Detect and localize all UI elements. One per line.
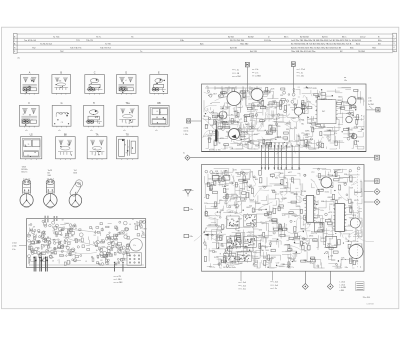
svg-text:L0xR: L0xR <box>248 126 253 128</box>
svg-text:C7: C7 <box>58 260 60 262</box>
svg-text:C29: C29 <box>249 172 252 174</box>
svg-text:72: 72 <box>125 123 127 125</box>
svg-text:T2xC: T2xC <box>281 199 286 201</box>
svg-text:3K4: 3K4 <box>328 141 331 143</box>
svg-text:L 23x: L 23x <box>300 76 304 78</box>
svg-text:K268: K268 <box>231 199 235 201</box>
svg-text:K82: K82 <box>255 145 258 147</box>
svg-text:50x2: 50x2 <box>237 174 241 176</box>
svg-text:35: 35 <box>28 144 30 146</box>
svg-text:7Bx C2x: 7Bx C2x <box>306 88 313 90</box>
svg-text:07L: 07L <box>315 208 318 210</box>
svg-text:D15: D15 <box>204 203 207 205</box>
svg-text:x2x: x2x <box>25 130 28 132</box>
svg-text:xK9: xK9 <box>235 213 238 215</box>
svg-text:x2x: x2x <box>123 130 126 132</box>
svg-text:T2 7B: T2 7B <box>105 44 111 46</box>
svg-text:R7x: R7x <box>334 133 337 135</box>
svg-text:xK96: xK96 <box>269 220 273 222</box>
svg-text:935: 935 <box>286 129 289 131</box>
svg-text:4: 4 <box>393 47 394 49</box>
svg-text:B2 2x 3x4 3x3x: B2 2x 3x4 3x3x <box>223 267 235 269</box>
svg-text:79RC: 79RC <box>357 97 362 99</box>
svg-text:C7x: C7x <box>133 245 136 247</box>
svg-text:D8x3: D8x3 <box>231 122 235 124</box>
svg-text:163D: 163D <box>327 130 332 132</box>
svg-text:9RL: 9RL <box>294 194 297 196</box>
svg-text:7214: 7214 <box>276 118 280 120</box>
svg-text:0xCx: 0xCx <box>277 105 281 107</box>
svg-text:3RT2: 3RT2 <box>252 106 256 108</box>
svg-text:x2: x2 <box>206 86 208 88</box>
svg-text:L 3x 3B4: L 3x 3B4 <box>340 287 347 289</box>
svg-text:80: 80 <box>75 228 77 230</box>
svg-text:LKK6: LKK6 <box>302 191 306 193</box>
svg-text:7Bw 3B2: 7Bw 3B2 <box>240 44 249 46</box>
svg-text:L 23B4: L 23B4 <box>255 76 261 78</box>
svg-text:L 3x: L 3x <box>368 98 371 100</box>
svg-text:x2x: x2x <box>58 130 61 132</box>
svg-text:DCC: DCC <box>306 133 311 135</box>
svg-text:LL: LL <box>134 224 136 226</box>
svg-text:RB9R: RB9R <box>337 100 342 102</box>
svg-text:D28: D28 <box>271 88 274 90</box>
svg-text:D39: D39 <box>257 203 260 205</box>
svg-text:991: 991 <box>285 228 288 230</box>
svg-text:547: 547 <box>240 263 243 265</box>
svg-text:2: 2 <box>393 40 394 42</box>
svg-text:xx 2B3: xx 2B3 <box>117 282 123 284</box>
svg-text:C2x04: C2x04 <box>349 261 354 263</box>
svg-text:xB9: xB9 <box>338 170 341 172</box>
svg-text:Lw3 7Bx 7B4 3Bw B3x 2B 34B 2Bx: Lw3 7Bx 7B4 3Bw B3x 2B 34B 2Bx B34 7w3 B… <box>291 40 352 42</box>
svg-text:0R52: 0R52 <box>267 218 271 220</box>
svg-text:TC1R: TC1R <box>354 127 359 129</box>
svg-text:4L42: 4L42 <box>254 134 258 136</box>
svg-text:49: 49 <box>159 112 161 114</box>
svg-text:5Tx: 5Tx <box>318 227 321 229</box>
svg-text:L 3x: L 3x <box>274 288 277 290</box>
svg-text:383: 383 <box>267 105 270 107</box>
svg-text:Tb 7c: Tb 7c <box>96 36 101 38</box>
svg-text:T2b T3b T9c: T2b T3b T9c <box>70 47 82 49</box>
svg-text:09DR: 09DR <box>328 197 333 199</box>
svg-text:9C77: 9C77 <box>243 116 247 118</box>
svg-text:T4a: T4a <box>125 102 130 105</box>
svg-text:728: 728 <box>330 255 333 257</box>
svg-text:xx4: xx4 <box>288 105 291 107</box>
svg-text:3x 2B4: 3x 2B4 <box>368 104 374 106</box>
svg-text:98: 98 <box>66 246 68 248</box>
svg-text:228: 228 <box>263 257 266 259</box>
svg-text:CC9: CC9 <box>284 140 288 142</box>
svg-text:51: 51 <box>97 258 99 260</box>
svg-text:663: 663 <box>321 201 324 203</box>
svg-text:L 34x: L 34x <box>12 246 17 248</box>
svg-text:320: 320 <box>209 251 212 253</box>
svg-text:B2 B4: B2 B4 <box>228 36 235 38</box>
svg-text:5: 5 <box>393 51 394 53</box>
svg-text:wx: wx <box>344 77 346 79</box>
svg-text:14: 14 <box>94 90 96 92</box>
svg-text:8R5: 8R5 <box>304 250 307 252</box>
svg-text:L5: L5 <box>85 261 87 263</box>
svg-text:5105: 5105 <box>287 146 291 148</box>
svg-text:71: 71 <box>63 229 65 231</box>
svg-text:08: 08 <box>62 220 64 222</box>
svg-text:03R1: 03R1 <box>208 138 212 140</box>
svg-text:96: 96 <box>39 232 41 234</box>
svg-text:L x 3x4: L x 3x4 <box>340 282 345 284</box>
svg-text:B5C4: B5C4 <box>311 231 316 233</box>
svg-text:B4 B2: B4 B2 <box>248 36 255 38</box>
svg-text:706: 706 <box>249 206 252 208</box>
svg-text:5L59: 5L59 <box>208 135 212 137</box>
svg-text:C6: C6 <box>94 149 96 151</box>
svg-text:D8x: D8x <box>345 267 348 269</box>
svg-text:78BC: 78BC <box>327 244 332 246</box>
svg-text:B2 B4 B2: B2 B4 B2 <box>300 36 310 38</box>
svg-text:L 3x2: L 3x2 <box>242 285 246 287</box>
svg-text:3B8D: 3B8D <box>273 102 278 104</box>
svg-text:x9R4: x9R4 <box>224 185 228 187</box>
svg-text:xx: xx <box>43 245 45 247</box>
svg-text:637D: 637D <box>313 88 318 90</box>
svg-text:L 3xx: L 3xx <box>242 289 246 291</box>
svg-text:06D1: 06D1 <box>288 258 292 260</box>
svg-text:B2w34 7B 3Bx B23 7Bw 34 B2x 3B: B2w34 7B 3Bx B23 7Bw 34 B2x 3Bw B23 2B4 … <box>291 47 342 49</box>
svg-text:KBCC: KBCC <box>209 267 215 269</box>
svg-text:L 3B4: L 3B4 <box>117 279 122 281</box>
svg-text:R31: R31 <box>319 142 322 144</box>
svg-text:T2: T2 <box>94 155 96 157</box>
svg-text:x1: x1 <box>125 80 127 82</box>
svg-text:9T: 9T <box>126 152 128 154</box>
svg-text:6T: 6T <box>71 236 73 238</box>
svg-text:BD6x: BD6x <box>338 97 342 99</box>
svg-text:T2b 7B: T2b 7B <box>86 40 93 42</box>
svg-text:Rx57: Rx57 <box>237 145 241 147</box>
svg-text:956: 956 <box>344 174 347 176</box>
svg-text:1: 1 <box>393 36 394 38</box>
svg-text:17: 17 <box>95 88 97 90</box>
svg-text:RCR: RCR <box>209 189 214 191</box>
svg-text:Tx07: Tx07 <box>294 216 298 218</box>
svg-text:C: C <box>94 71 96 74</box>
svg-text:LKx: LKx <box>321 210 324 212</box>
svg-text:63: 63 <box>45 245 47 247</box>
svg-text:93C6: 93C6 <box>229 212 233 214</box>
svg-text:53C3: 53C3 <box>208 179 212 181</box>
svg-text:D4R0: D4R0 <box>348 130 353 132</box>
svg-text:7R53: 7R53 <box>352 215 356 217</box>
svg-text:T9RB: T9RB <box>291 118 296 120</box>
svg-text:9222: 9222 <box>206 216 210 218</box>
svg-text:L 3x4: L 3x4 <box>242 282 246 284</box>
svg-text:888: 888 <box>286 123 289 125</box>
svg-text:3T: 3T <box>136 221 138 223</box>
svg-text:xD97: xD97 <box>275 137 279 139</box>
svg-text:D1: D1 <box>94 235 96 237</box>
svg-text:G: G <box>61 102 63 105</box>
svg-text:168: 168 <box>208 224 211 226</box>
svg-text:67: 67 <box>31 120 33 122</box>
svg-text:C2375B: C2375B <box>366 304 374 306</box>
svg-text:Tw M 2b 3x4: Tw M 2b 3x4 <box>40 44 53 46</box>
svg-text:H: H <box>93 102 95 105</box>
svg-text:x2x: x2x <box>90 130 93 132</box>
svg-text:3LDD: 3LDD <box>214 257 219 259</box>
svg-text:3B 7B 7B4 7B4: 3B 7B 7B4 7B4 <box>230 40 245 42</box>
svg-text:L 3x4: L 3x4 <box>274 285 278 287</box>
svg-text:D: D <box>125 71 127 74</box>
svg-text:67: 67 <box>46 241 48 243</box>
svg-text:T2xL: T2xL <box>220 107 224 109</box>
svg-text:5x: 5x <box>57 234 59 236</box>
svg-text:L 3x: L 3x <box>300 72 303 74</box>
svg-text:D9: D9 <box>33 227 35 229</box>
svg-text:BC347B: BC347B <box>241 132 248 134</box>
svg-text:D3 D3x: D3 D3x <box>264 40 272 42</box>
svg-text:CRT7: CRT7 <box>288 141 293 143</box>
svg-text:K011: K011 <box>353 108 357 110</box>
svg-text:954: 954 <box>245 173 248 175</box>
svg-text:21C8: 21C8 <box>250 199 254 201</box>
svg-text:546: 546 <box>249 185 252 187</box>
svg-text:2B25: 2B25 <box>307 262 311 264</box>
svg-text:D62: D62 <box>243 179 246 181</box>
svg-text:L 3x: L 3x <box>12 249 16 251</box>
svg-text:D31C: D31C <box>216 236 221 238</box>
svg-text:K35: K35 <box>275 178 278 180</box>
svg-text:TR9: TR9 <box>237 230 240 232</box>
svg-text:T0: T0 <box>41 248 43 250</box>
svg-text:828: 828 <box>350 203 353 205</box>
svg-text:C750: C750 <box>272 192 276 194</box>
svg-text:7L: 7L <box>38 254 40 256</box>
svg-text:D6x: D6x <box>272 116 275 118</box>
svg-text:8R00: 8R00 <box>237 255 241 257</box>
svg-text:x6C7: x6C7 <box>288 172 292 174</box>
svg-text:x69: x69 <box>346 113 349 115</box>
svg-text:101: 101 <box>214 252 217 254</box>
svg-text:KK: KK <box>27 155 29 157</box>
svg-text:L81C: L81C <box>327 175 332 177</box>
svg-text:BC34x: BC34x <box>241 136 246 138</box>
svg-text:D3x: D3x <box>190 209 193 211</box>
svg-text:D4 x2: D4 x2 <box>360 36 366 38</box>
svg-text:L67: L67 <box>204 245 207 247</box>
svg-text:D1: D1 <box>33 238 35 240</box>
svg-text:K2: K2 <box>60 141 62 143</box>
svg-text:L 30x: L 30x <box>184 134 188 136</box>
svg-text:L 3x: L 3x <box>236 70 239 72</box>
svg-text:D311: D311 <box>303 239 307 241</box>
svg-text:BK6: BK6 <box>280 173 283 175</box>
svg-text:x 3B4: x 3B4 <box>340 290 344 292</box>
svg-text:80R4: 80R4 <box>211 184 215 186</box>
svg-text:4KL: 4KL <box>318 147 321 149</box>
svg-text:RT65: RT65 <box>232 245 236 247</box>
svg-text:T5R6: T5R6 <box>249 113 253 115</box>
svg-text:30: 30 <box>139 226 141 228</box>
svg-text:1R2: 1R2 <box>329 204 332 206</box>
svg-text:L3x: L3x <box>344 80 347 82</box>
svg-text:96L1: 96L1 <box>313 240 317 242</box>
svg-text:D48: D48 <box>248 235 251 237</box>
svg-text:L x 3x4: L x 3x4 <box>340 284 345 286</box>
svg-text:L3: L3 <box>121 86 123 88</box>
svg-text:6003: 6003 <box>272 223 276 225</box>
svg-text:K06: K06 <box>266 250 269 252</box>
svg-text:4KLC: 4KLC <box>339 178 344 180</box>
svg-text:DB: DB <box>29 86 31 88</box>
svg-text:3B7: 3B7 <box>312 128 315 130</box>
svg-text:CK: CK <box>30 79 32 81</box>
svg-text:L2L: L2L <box>223 170 226 172</box>
svg-text:0D7: 0D7 <box>248 103 251 105</box>
svg-text:7Bw 34B 2Bx B3 2xB 7Bw: 7Bw 34B 2Bx B3 2xB 7Bw <box>291 51 316 53</box>
svg-text:Twr M 2b G4: Twr M 2b G4 <box>24 39 37 42</box>
svg-text:523: 523 <box>355 192 358 194</box>
svg-text:B2x 3x: B2x 3x <box>306 146 312 148</box>
svg-text:DC: DC <box>322 111 326 113</box>
svg-text:B23: B23 <box>74 172 77 174</box>
svg-text:RC8: RC8 <box>259 210 263 212</box>
svg-text:R8LR: R8LR <box>250 245 255 247</box>
svg-text:Ta T1b: Ta T1b <box>53 36 60 38</box>
svg-text:7T2: 7T2 <box>311 172 314 174</box>
svg-text:191C: 191C <box>261 245 266 247</box>
svg-text:9xK1: 9xK1 <box>307 102 311 104</box>
svg-text:KD15: KD15 <box>354 200 359 202</box>
svg-text:K59: K59 <box>350 188 353 190</box>
svg-text:TA: TA <box>96 134 99 137</box>
svg-text:CB: CB <box>61 122 63 124</box>
svg-text:4R74: 4R74 <box>309 235 313 237</box>
svg-text:93x: 93x <box>301 124 304 126</box>
svg-text:T97: T97 <box>266 133 269 135</box>
svg-text:DB: DB <box>157 102 161 105</box>
svg-text:2xKD: 2xKD <box>300 140 305 142</box>
svg-text:T4b 7B 7k3: T4b 7B 7k3 <box>100 47 111 49</box>
svg-text:610: 610 <box>242 189 245 191</box>
svg-text:xK8: xK8 <box>222 94 225 96</box>
svg-text:B01: B01 <box>255 179 258 181</box>
svg-text:TB1: TB1 <box>301 119 304 121</box>
svg-text:Bx2 3B: Bx2 3B <box>250 51 257 53</box>
svg-text:w 234: w 234 <box>184 128 189 130</box>
svg-text:68: 68 <box>154 84 156 86</box>
svg-text:LB: LB <box>128 123 130 125</box>
svg-text:93: 93 <box>60 81 62 83</box>
svg-text:R65: R65 <box>258 236 261 238</box>
svg-text:3x: 3x <box>183 153 185 155</box>
svg-text:T2x 7x3: T2x 7x3 <box>213 173 219 175</box>
svg-text:L 3x4: L 3x4 <box>12 243 17 245</box>
svg-text:x8T6: x8T6 <box>270 258 274 260</box>
svg-text:T780: T780 <box>276 126 280 128</box>
svg-text:Bx4: Bx4 <box>306 244 309 246</box>
svg-text:L 7x: L 7x <box>255 72 258 74</box>
svg-text:x2x: x2x <box>155 130 158 132</box>
svg-text:26: 26 <box>52 261 54 263</box>
svg-text:952: 952 <box>293 261 296 263</box>
svg-text:B5: B5 <box>75 226 77 228</box>
svg-text:mk 3x: mk 3x <box>184 131 189 133</box>
svg-text:w 7B: w 7B <box>117 276 122 278</box>
svg-text:7Bx 4B4: 7Bx 4B4 <box>363 297 371 299</box>
svg-text:B23 D: B23 D <box>322 36 328 38</box>
svg-text:L 27x4: L 27x4 <box>300 69 305 71</box>
svg-text:B2x 7x: B2x 7x <box>22 171 28 173</box>
svg-text:4B0: 4B0 <box>305 137 308 139</box>
svg-text:F8x: F8x <box>190 236 193 238</box>
svg-text:236: 236 <box>221 246 224 248</box>
svg-text:8L: 8L <box>23 114 25 116</box>
svg-text:Bx 7B3 B2 B34 2B 7x3 B23 3Bx B: Bx 7B3 B2 B34 2B 7x3 B23 3Bx B2w 7B4 2x3… <box>291 44 352 46</box>
svg-text:0TB0: 0TB0 <box>281 264 285 266</box>
svg-text:44: 44 <box>92 123 94 125</box>
svg-text:96: 96 <box>159 81 161 83</box>
svg-text:w 2B4: w 2B4 <box>236 76 241 78</box>
svg-text:320: 320 <box>321 189 324 191</box>
svg-text:8K7x: 8K7x <box>284 187 288 189</box>
svg-text:9DL: 9DL <box>315 202 318 204</box>
svg-text:T3: T3 <box>67 144 69 146</box>
svg-text:L4: L4 <box>129 224 131 226</box>
svg-text:B037: B037 <box>244 182 248 184</box>
svg-text:L 3x: L 3x <box>255 69 258 71</box>
svg-text:7B 3B4: 7B 3B4 <box>358 51 366 53</box>
svg-text:L 3x4: L 3x4 <box>274 282 278 284</box>
svg-text:0L: 0L <box>132 219 134 221</box>
svg-text:7RK5: 7RK5 <box>214 208 219 210</box>
svg-text:K12C: K12C <box>325 191 330 193</box>
svg-text:D27: D27 <box>353 117 356 119</box>
svg-text:0B3: 0B3 <box>259 230 262 232</box>
svg-text:8x: 8x <box>96 250 98 252</box>
svg-text:3: 3 <box>393 43 394 45</box>
svg-text:L4: L4 <box>156 111 158 113</box>
svg-text:A2x B2x: A2x B2x <box>306 142 313 145</box>
svg-text:B3 B4 B3: B3 B4 B3 <box>352 40 362 42</box>
svg-text:x8x: x8x <box>248 142 251 144</box>
svg-text:C90: C90 <box>330 199 333 201</box>
svg-text:L86: L86 <box>230 182 233 184</box>
svg-text:T4: T4 <box>70 230 72 232</box>
svg-text:966D: 966D <box>225 107 230 109</box>
svg-text:7T41: 7T41 <box>293 105 297 107</box>
svg-text:B23 3B: B23 3B <box>230 47 237 49</box>
svg-text:184x: 184x <box>219 200 223 202</box>
svg-text:8557: 8557 <box>238 218 242 220</box>
